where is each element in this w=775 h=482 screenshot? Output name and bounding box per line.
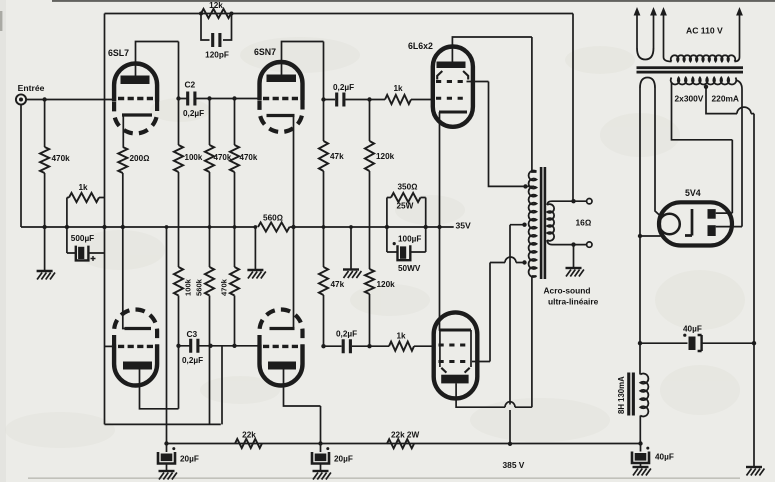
node rail/6SN7-cathode junction xyxy=(291,225,295,229)
node rail/200R junction xyxy=(121,225,125,229)
svg-text:470k: 470k xyxy=(220,278,229,296)
svg-text:6L6x2: 6L6x2 xyxy=(408,41,433,51)
svg-text:C2: C2 xyxy=(185,80,196,90)
node secondary-bottom/ground junction xyxy=(571,242,575,246)
wire U3 plate lead up xyxy=(452,37,532,62)
svg-text:0,2µF: 0,2µF xyxy=(333,83,354,92)
node rail/box2-right junction xyxy=(424,225,428,229)
wire T2 primary right end xyxy=(735,57,740,62)
resistor R17 350R 25W xyxy=(391,193,420,202)
wire input jack sleeve drop xyxy=(20,105,22,227)
resistor R-feedback 12k xyxy=(201,9,231,18)
wire C3 to 6SN7b grid xyxy=(179,345,260,347)
resistor R9 470k lower xyxy=(230,267,239,296)
svg-text:470k: 470k xyxy=(52,154,71,163)
capacitor 120pF xyxy=(213,33,220,47)
tube U3 6L6 envelope xyxy=(433,47,473,127)
wire T1 primary bottom end xyxy=(532,275,537,277)
svg-text:120pF: 120pF xyxy=(205,51,229,60)
node B+/40uF-1 junction xyxy=(638,341,642,345)
tube U3 cathode xyxy=(439,111,467,114)
wire T1 secondary bottom out xyxy=(547,240,586,245)
tube U2a cathode xyxy=(267,114,295,117)
svg-text:220mA: 220mA xyxy=(712,94,739,104)
node rail/box1-left junction xyxy=(65,225,69,229)
svg-text:22k 2W: 22k 2W xyxy=(391,431,419,440)
node feedback/secondary junction xyxy=(571,199,575,203)
wire 200R bottom to lower cathode xyxy=(123,173,125,329)
tube U5 cathode xyxy=(685,209,692,236)
svg-text:12k: 12k xyxy=(209,1,223,10)
wire 40uF-1 link xyxy=(640,342,754,344)
wire U2b plate lead xyxy=(284,370,321,444)
tube U5 5V4 envelope xyxy=(659,202,732,245)
svg-text:560k: 560k xyxy=(195,278,204,296)
resistor R15 120k lower xyxy=(365,269,374,294)
capacitor C7 20uF-1 xyxy=(158,452,175,464)
svg-text:0,2µF: 0,2µF xyxy=(182,356,203,365)
wire 5V line right xyxy=(655,88,661,217)
node chain-C/rail junction xyxy=(233,225,237,229)
svg-text:40µF: 40µF xyxy=(655,453,674,462)
node T1 screen tap lower xyxy=(522,260,526,264)
scan top edge artifact xyxy=(52,0,775,2)
svg-text:100µF: 100µF xyxy=(398,235,421,244)
tube U4 cage walls xyxy=(440,330,471,367)
svg-text:350Ω: 350Ω xyxy=(398,183,418,192)
wire box2 top stubs xyxy=(387,197,426,199)
wire jog vertical x222 xyxy=(221,346,223,425)
tube U1a plate xyxy=(121,76,150,85)
terminal 16R top xyxy=(587,199,592,204)
wire U3 screen lead xyxy=(467,82,525,187)
svg-text:385 V: 385 V xyxy=(503,460,525,470)
ground G7 under 40uF-2 xyxy=(633,467,651,476)
tube U4 screen dashes xyxy=(439,360,472,363)
wire B+ bottom rail xyxy=(167,443,641,445)
capacitor C1 500uF electrolytic xyxy=(67,252,105,254)
wire lower screen tap line xyxy=(490,262,525,264)
svg-text:6SL7: 6SL7 xyxy=(108,48,129,58)
wire 120k chain vertical xyxy=(369,100,371,347)
capacitor C8 20uF-2 xyxy=(312,452,329,464)
tube U2b grid dashes xyxy=(263,345,299,348)
ground G6 under 20uF-2 xyxy=(313,471,331,480)
svg-text:Entrée: Entrée xyxy=(18,83,45,93)
transformer T2 core xyxy=(637,66,744,69)
node rail/box2-left junction xyxy=(385,225,389,229)
node 47k-chain/C5-wire junction xyxy=(321,344,325,348)
tube U3 plate xyxy=(437,62,466,69)
node 120k/C5-wire junction xyxy=(367,344,371,348)
wire 470k top lead xyxy=(44,100,46,148)
resistor R14 120k upper xyxy=(365,141,374,171)
transformer T2 5V winding xyxy=(640,78,655,89)
node T2 HV centre tap xyxy=(704,85,708,89)
choke L1 coil xyxy=(640,374,648,417)
node 47k-chain/coupling junction xyxy=(321,97,325,101)
wire AC line arrow 3 xyxy=(663,12,665,57)
wire feedback vertical to cathode network xyxy=(104,14,106,425)
wire link lower-left horizontal2 xyxy=(105,423,221,425)
node chain-B/rail junction xyxy=(208,225,212,229)
wire T1 primary top end xyxy=(532,37,537,172)
tube U1a grid dashes xyxy=(118,97,153,100)
wire 120pF left stub xyxy=(201,14,210,41)
svg-text:40µF: 40µF xyxy=(683,325,702,334)
svg-text:100k: 100k xyxy=(184,278,193,296)
resistor R10 560R xyxy=(258,222,290,231)
node chain-C/C2-wire junction xyxy=(232,96,236,100)
svg-text:560Ω: 560Ω xyxy=(263,214,283,223)
tube U3 screen dashes xyxy=(436,80,467,83)
svg-text:500µF: 500µF xyxy=(71,234,94,243)
wire chain-A vertical xyxy=(178,42,180,409)
tube U3 beam plates xyxy=(437,71,468,80)
capacitor C2 0.2uF xyxy=(188,92,195,106)
transformer T2 primary coil xyxy=(671,55,736,61)
svg-text:50WV: 50WV xyxy=(398,264,421,273)
svg-text:35V: 35V xyxy=(456,221,472,231)
resistor R2 1k cathode xyxy=(69,193,99,202)
tube U4 plate xyxy=(441,375,468,384)
wire AC line arrow 2 xyxy=(653,12,655,48)
node rail/470k junction xyxy=(42,225,46,229)
wire B+ vertical hop gap cover xyxy=(509,402,511,413)
svg-text:8H 130mA: 8H 130mA xyxy=(617,376,626,414)
node rail/560R-left junction xyxy=(254,225,258,229)
resistor R8 470k upper-2 xyxy=(230,145,239,172)
svg-text:47k: 47k xyxy=(331,280,345,289)
scan left edge artifact xyxy=(0,0,6,482)
svg-text:22k: 22k xyxy=(242,431,256,440)
wire chain-B vertical xyxy=(209,99,211,425)
node chain-A/C3 junction xyxy=(176,344,180,348)
node chain-C/C3-wire junction xyxy=(232,344,236,348)
resistor R18 22k xyxy=(235,439,262,448)
node chain-B/C2-wire junction xyxy=(207,96,211,100)
wire ground stem G3 xyxy=(350,227,352,270)
capacitor C5 0.2uF lower xyxy=(343,339,350,353)
wire C2 to 6SN7 grid xyxy=(179,98,260,100)
wire lower screen hop xyxy=(505,257,516,262)
wire dropper vertical x166 xyxy=(166,227,168,444)
node rail/47k-chain junction xyxy=(322,225,326,229)
capacitor C6 100uF electrolytic xyxy=(387,251,426,253)
tube U3 control-grid dashes xyxy=(436,97,467,100)
wire 5V line left (B+) xyxy=(639,88,641,343)
wire U1b grid lead xyxy=(105,345,114,347)
wire 47k chain vertical xyxy=(323,42,325,347)
terminal 16R bottom xyxy=(587,242,592,247)
tube U2a plate xyxy=(267,75,297,83)
node chain-A/C2 junction xyxy=(176,96,180,100)
wire ground stem G2 xyxy=(254,227,256,270)
tube U1b 6SL7 envelope xyxy=(114,310,157,345)
transformer T1 primary coil xyxy=(529,171,537,277)
resistor R6 470k upper-1 xyxy=(205,145,214,172)
ground G1 input xyxy=(37,271,55,280)
svg-text:20µF: 20µF xyxy=(334,455,353,464)
wire C7 ground stem xyxy=(166,444,168,472)
wire centre-tap hop xyxy=(737,107,751,114)
resistor R7 560k xyxy=(205,267,214,296)
wire box1 left vertical xyxy=(66,198,68,254)
wire T2 primary left end xyxy=(664,57,672,62)
svg-text:16Ω: 16Ω xyxy=(576,218,592,228)
tube U1a 6SL7 envelope xyxy=(114,64,157,102)
tube U1b plate xyxy=(123,362,152,370)
transformer T1 secondary coil xyxy=(547,204,554,241)
wire U3 cathode lead down xyxy=(440,112,442,330)
wire C4 line xyxy=(324,99,386,101)
node rail/20uF-1 junction xyxy=(164,441,168,445)
wire choke top lead xyxy=(639,343,641,374)
wire U4 screen lead xyxy=(472,263,490,362)
resistor R13 1k grid-stopper upper xyxy=(385,95,411,104)
wire bias rail y227 right portion xyxy=(290,226,454,228)
svg-text:0,2µF: 0,2µF xyxy=(183,109,204,118)
wire U1a plate lead up xyxy=(136,42,179,77)
resistor R16 1k grid-stopper lower xyxy=(389,342,414,351)
wire ground stem G1 xyxy=(44,227,46,271)
ground G8 bottom right xyxy=(746,467,764,476)
transformer T2 HV secondary coil xyxy=(671,78,737,85)
scan bottom edge artifact xyxy=(28,478,740,479)
capacitor C10 40uF lower xyxy=(632,452,649,464)
node rail/20uF-2 junction xyxy=(318,441,322,445)
svg-text:6SN7: 6SN7 xyxy=(254,47,276,57)
wire 1k to U3 grid xyxy=(411,99,433,101)
wire chain-C vertical xyxy=(234,99,236,346)
wire C10 ground stem xyxy=(640,444,642,468)
node junction left of 12k xyxy=(199,12,203,16)
node rail/choke junction xyxy=(638,441,642,445)
svg-text:2x300V: 2x300V xyxy=(675,94,704,104)
node C4/120k junction xyxy=(367,97,371,101)
tube U1b cathode bar xyxy=(125,327,152,330)
node U5 heater/B+ junction xyxy=(638,234,642,238)
wire T1 secondary top out xyxy=(547,201,586,205)
wire box2 right vertical xyxy=(425,198,427,253)
wire U5 plate 1 lead xyxy=(716,212,733,214)
node rail/6L6-cathode junction xyxy=(437,225,441,229)
resistor R4 100k upper xyxy=(174,145,183,172)
svg-text:C3: C3 xyxy=(187,329,198,339)
svg-text:AC 110 V: AC 110 V xyxy=(686,26,723,36)
svg-text:ultra-linéaire: ultra-linéaire xyxy=(548,297,599,307)
wire 120pF right stub xyxy=(223,14,232,41)
capacitor C9 40uF upper xyxy=(689,337,696,351)
wire T1 tap join upper xyxy=(524,185,534,187)
tube U2b 6SN7 envelope xyxy=(260,310,303,345)
svg-text:1k: 1k xyxy=(78,183,88,192)
wire ground stem G4 xyxy=(573,245,575,268)
choke L1 core xyxy=(627,373,630,416)
wire B+ tap line xyxy=(510,225,525,444)
resistor R1 470k input xyxy=(40,147,49,173)
wire AC line arrow 4 xyxy=(739,12,741,57)
wire C5 line xyxy=(324,345,390,347)
tube U2a 6SN7 envelope xyxy=(260,62,303,100)
node T1 screen tap upper xyxy=(523,184,527,188)
svg-text:1k: 1k xyxy=(393,84,403,93)
wire U4 plate lead xyxy=(456,276,532,407)
node rail/385V junction xyxy=(508,442,512,446)
tube U4 6L6 envelope xyxy=(434,312,478,398)
wire U1b plate lead xyxy=(140,370,179,409)
wire choke bottom lead xyxy=(639,416,641,444)
wire U1a cathode lead xyxy=(122,116,124,148)
wire U5 plate 2 lead xyxy=(716,226,742,228)
tube U2b cathode bar xyxy=(270,327,295,330)
wire HV right end to plate 2 xyxy=(736,80,743,227)
wire box1 top stubs xyxy=(67,197,105,199)
capacitor C3 0.2uF xyxy=(191,339,198,353)
svg-text:470k: 470k xyxy=(240,153,258,162)
wire bias rail y227 xyxy=(21,226,255,228)
wire U5 heater bottom lead xyxy=(640,235,661,237)
tube U1b grid dashes xyxy=(118,345,153,348)
wire 1k to U4 grid xyxy=(414,345,434,347)
ground G3 mid xyxy=(343,270,361,279)
transformer T2 aux primary loop xyxy=(637,48,654,60)
ground G4 speaker xyxy=(566,268,584,277)
svg-text:200Ω: 200Ω xyxy=(130,154,150,163)
ground G5 under 20uF-1 xyxy=(159,471,177,480)
wire box2 left vertical xyxy=(386,198,388,253)
node ground-rail/40uF-1 junction xyxy=(752,341,756,345)
wire AC line arrow 1 xyxy=(636,12,638,48)
svg-text:0,2µF: 0,2µF xyxy=(336,330,357,339)
node rail/feedback junction xyxy=(102,225,106,229)
transformer T1 core xyxy=(540,167,543,279)
wire feedback drop xyxy=(572,14,574,202)
node T1 B+ centre tap xyxy=(522,223,526,227)
svg-text:1k: 1k xyxy=(396,332,406,341)
wire U4 plate hop over B+ xyxy=(505,402,515,407)
svg-text:5V4: 5V4 xyxy=(685,188,701,198)
svg-text:120k: 120k xyxy=(376,152,395,161)
ground G2 under 560R xyxy=(247,270,265,279)
wire U2a cathode lead down xyxy=(294,116,295,329)
wire HV centre tap to ground rail xyxy=(706,87,754,467)
wire input to grid of U1a xyxy=(26,99,112,101)
wire 470k bottom lead xyxy=(44,173,46,227)
resistor R12 47k lower xyxy=(319,267,328,295)
tube U4 beam plates xyxy=(441,368,469,373)
node input/470k junction xyxy=(42,97,46,101)
resistor R3 200R xyxy=(118,147,127,173)
node rail/x166 junction xyxy=(165,225,169,229)
wire C8 ground stem xyxy=(320,444,322,472)
svg-text:100k: 100k xyxy=(185,153,203,162)
resistor R5 100k lower xyxy=(174,267,183,296)
tube U5 plate 1 xyxy=(708,209,716,219)
wire U2a plate lead up xyxy=(282,42,324,75)
tube U1a cathode xyxy=(122,113,152,116)
tube U2a grid dashes xyxy=(263,97,299,100)
node chain-B/C3-wire junction xyxy=(208,344,212,348)
tube U4 cathode bar xyxy=(440,329,471,332)
tube U5 plate 2 xyxy=(708,225,716,236)
node junction right of 12k xyxy=(230,12,234,16)
tube U2b plate xyxy=(268,362,296,370)
tube U4 control-grid dashes xyxy=(439,344,472,347)
resistor R11 47k upper xyxy=(319,141,328,171)
resistor R19 22k 2W xyxy=(387,439,414,448)
node rail/ground3 junction xyxy=(349,225,353,229)
svg-text:25W: 25W xyxy=(397,202,414,211)
svg-text:20µF: 20µF xyxy=(180,455,199,464)
wire top feedback rail xyxy=(105,13,574,15)
tube U5 heater xyxy=(659,214,680,235)
svg-text:Acro-sound: Acro-sound xyxy=(544,286,591,296)
wire HV left end to plate 1 xyxy=(672,82,733,213)
svg-text:120k: 120k xyxy=(377,280,396,289)
svg-text:47k: 47k xyxy=(330,152,344,161)
capacitor C4 0.2uF upper xyxy=(337,93,344,107)
input jack connector xyxy=(16,94,26,104)
